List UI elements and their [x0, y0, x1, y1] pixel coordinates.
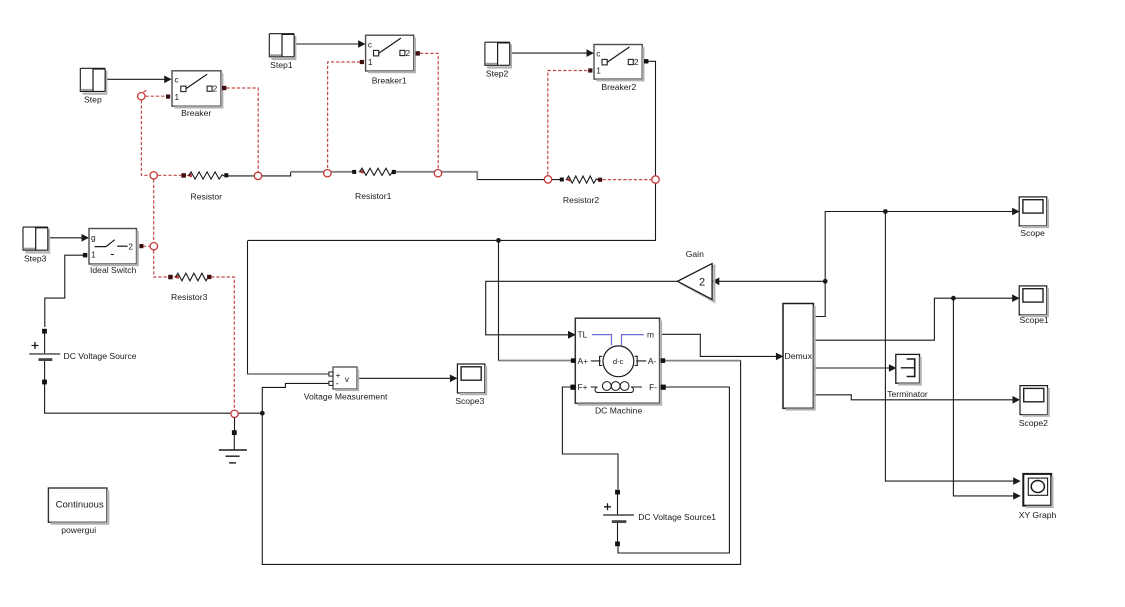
svg-text:2: 2 [213, 84, 218, 94]
node circle Breaker1 port2 drop [434, 170, 441, 177]
wire DC Voltage Source minus to ground node [45, 384, 262, 413]
ground block [219, 418, 247, 463]
powergui block [48, 488, 108, 535]
svg-text:Scope3: Scope3 [455, 396, 484, 406]
step source Step1 [269, 34, 295, 70]
wire F- to DC Voltage Source1 minus [618, 387, 729, 553]
node circle Ideal Switch output [150, 243, 157, 250]
svg-text:Gain: Gain [686, 249, 704, 259]
wire Step to Breaker c [106, 76, 171, 84]
node circle Resistor2 to bus [652, 176, 659, 183]
wire Voltage Measurement plus tap [248, 241, 330, 374]
scope Scope [1019, 197, 1048, 238]
wire dashed Breaker1 port1 down to chain [328, 62, 361, 169]
svg-text:A+: A+ [578, 356, 589, 366]
junction ground node [260, 411, 265, 416]
svg-text:DC Voltage Source1: DC Voltage Source1 [638, 512, 716, 522]
svg-text:2: 2 [406, 48, 411, 58]
resistor Resistor2 [560, 176, 602, 205]
svg-text:DC Machine: DC Machine [595, 405, 643, 415]
svg-text:powergui: powergui [61, 525, 96, 535]
wire dashed Ideal Switch port2 to node [143, 245, 150, 247]
svg-text:2: 2 [128, 241, 133, 251]
wire dashed node to Resistor left terminal [158, 174, 181, 176]
svg-text:Continuous: Continuous [56, 500, 104, 511]
svg-text:F+: F+ [578, 382, 588, 392]
svg-text:Resistor: Resistor [191, 191, 223, 201]
wire A+ feed from bus [499, 240, 571, 360]
svg-text:Resistor1: Resistor1 [355, 191, 392, 201]
wire into Gain input [712, 278, 825, 286]
breaker Breaker [166, 71, 226, 118]
wire dashed Resistor2 right to bus node [603, 179, 652, 181]
svg-text:2: 2 [634, 57, 639, 67]
svg-text:Voltage Measurement: Voltage Measurement [304, 392, 388, 402]
wire dashed Breaker port2 down to chain [226, 88, 258, 172]
dc machine U1 [568, 318, 666, 415]
demux Demux [783, 304, 815, 410]
svg-text:F-: F- [649, 382, 657, 392]
wire Step2 to Breaker2 c [511, 49, 595, 57]
wire F+ to DC Voltage Source1 plus [562, 387, 618, 489]
wire resistor chain gray segment [291, 172, 478, 180]
wire dashed switch node down to Resistor3 [154, 250, 169, 277]
junction scope1 line tap [951, 296, 956, 301]
svg-text:-: - [336, 379, 339, 389]
wire dashed Breaker1 port2 down to chain [420, 53, 438, 169]
svg-text:d-c: d-c [613, 357, 624, 366]
svg-text:1: 1 [368, 57, 373, 67]
node circle Breaker2 port1 drop [544, 176, 551, 183]
terminator Terminator [887, 354, 928, 399]
svg-text:DC Voltage Source: DC Voltage Source [64, 351, 137, 361]
svg-text:c: c [175, 75, 179, 85]
wire Ideal Switch port1 to DC Voltage Source plus [45, 255, 84, 327]
svg-text:v: v [345, 374, 350, 384]
wire Breaker2 output bus [248, 61, 656, 240]
wire dashed resistor node down to switch node [153, 180, 155, 243]
wire Demux out4 to Scope2 [813, 395, 1020, 404]
svg-text:c: c [368, 39, 372, 49]
node circle near Breaker port1 [138, 90, 147, 100]
svg-text:Scope: Scope [1020, 228, 1045, 238]
svg-text:Step2: Step2 [486, 69, 509, 79]
svg-text:Scope1: Scope1 [1020, 315, 1049, 325]
scope Scope3 [455, 364, 486, 406]
svg-text:A-: A- [648, 356, 657, 366]
junction scope line tap [883, 209, 888, 214]
svg-text:Breaker1: Breaker1 [372, 75, 407, 85]
wire armature return A- loop [262, 361, 740, 565]
resistor Resistor [181, 172, 228, 201]
svg-text:Step1: Step1 [270, 60, 293, 70]
wire Voltage Measurement to Scope3 [357, 375, 457, 383]
wire ground node to Voltage Measurement minus [262, 383, 328, 413]
wire dashed Breaker2 port1 down to chain [548, 71, 588, 176]
svg-text:Resistor2: Resistor2 [563, 195, 600, 205]
wire dashed node down to resistor line node [141, 100, 149, 175]
svg-text:m: m [647, 330, 654, 340]
switch Ideal Switch [83, 229, 143, 276]
scope Scope1 [1019, 286, 1049, 325]
step source Step2 [485, 42, 511, 78]
wire dashed node to Breaker port1 [146, 95, 166, 97]
wire Demux out1 to Scope [813, 208, 1019, 317]
resistor Resistor3 [168, 273, 211, 302]
svg-text:Breaker2: Breaker2 [601, 82, 636, 92]
svg-text:Breaker: Breaker [181, 108, 211, 118]
svg-text:TL: TL [578, 330, 588, 340]
svg-text:1: 1 [175, 92, 180, 102]
measurement Voltage Measurement [304, 367, 388, 402]
svg-text:Ideal Switch: Ideal Switch [90, 265, 137, 275]
node circle resistor chain left [150, 172, 157, 179]
wire tap to XY Graph x input [885, 212, 1020, 485]
svg-text:g: g [91, 233, 96, 243]
dc source DC Voltage Source1 [603, 490, 716, 547]
step source Step3 [23, 227, 49, 263]
svg-text:XY Graph: XY Graph [1019, 510, 1057, 520]
wire dashed Resistor3 right to ground node [211, 277, 234, 410]
scope Scope2 [1019, 386, 1049, 429]
svg-text:1: 1 [596, 66, 601, 76]
svg-text:Resistor3: Resistor3 [171, 292, 208, 302]
junction gain tap [823, 279, 828, 284]
node circle ground junction [231, 410, 238, 417]
junction bus to A+ [496, 238, 501, 243]
wire resistor chain black segment right [477, 179, 560, 181]
breaker Breaker1 [360, 35, 420, 85]
xy graph XY Graph [1019, 474, 1057, 520]
svg-text:Terminator: Terminator [887, 389, 928, 399]
step source Step [80, 68, 106, 104]
wire Demux out2 to Scope1 [813, 294, 1019, 340]
gain Gain [678, 249, 715, 301]
svg-text:1: 1 [91, 250, 96, 260]
node circle Breaker1 port1 drop [324, 170, 331, 177]
svg-text:Step3: Step3 [24, 253, 47, 263]
svg-text:2: 2 [699, 276, 705, 288]
breaker Breaker2 [588, 45, 648, 93]
svg-text:Demux: Demux [784, 351, 812, 361]
svg-text:Step: Step [84, 95, 102, 105]
svg-text:Scope2: Scope2 [1019, 418, 1048, 428]
svg-text:c: c [596, 48, 600, 58]
wire A- gray segment [663, 360, 740, 362]
node circle Breaker port2 drop [254, 172, 261, 179]
wire tap to XY Graph y input [953, 298, 1020, 500]
wire Gain output to DC Machine TL [486, 281, 678, 338]
resistor Resistor1 [352, 168, 396, 201]
wire Demux out3 to Terminator [813, 364, 896, 372]
wire resistor chain black segment left [228, 172, 290, 176]
wire Step3 to Ideal Switch g [48, 234, 89, 242]
wire Step1 to Breaker1 c [295, 40, 366, 48]
dc source DC Voltage Source [29, 329, 137, 385]
wire DC Machine m to Demux [660, 334, 784, 360]
